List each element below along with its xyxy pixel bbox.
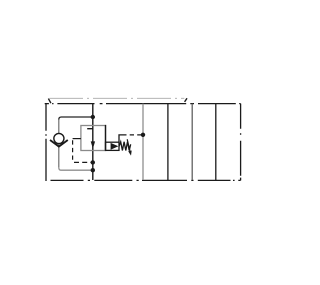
break tick left [48, 99, 51, 104]
pilot sense line (dashed, left of valve) [73, 138, 81, 140]
station divider line (gray) at x=143 [142, 104, 144, 180]
junction dot: pilot sense [91, 160, 95, 164]
junction dot: bypass bottom [91, 168, 95, 172]
station divider line (black) at x=215.8 [215, 104, 217, 180]
station divider line (black) at x=167.9 [167, 104, 169, 180]
check valve CV: seat [50, 140, 68, 147]
bypass wire left vertical [58, 120, 60, 168]
spring [119, 142, 131, 151]
enclosure right edge (dash-dot) [240, 104, 242, 181]
pilot relief valve poppet arrow (filled triangle) [111, 143, 119, 150]
station divider line (dark gray) at x=192.2 [191, 104, 193, 180]
pilot relief valve body [106, 142, 120, 150]
bypass wire bottom segment [59, 168, 93, 171]
junction dot: bypass top [91, 115, 95, 119]
check valve CV: ball [54, 133, 64, 143]
junction dot: pilot at divider [141, 133, 145, 137]
enclosure bottom edge (dash-dot) [51, 179, 241, 181]
broken upper boundary line (gray dash-dot) [50, 97, 185, 99]
enclosure top edge (dash-dot) [45, 103, 241, 105]
bypass wire top segment [59, 117, 93, 120]
break tick right [185, 98, 187, 102]
flow control valve body (gray box) [81, 126, 106, 151]
flow path stub inside valve [87, 128, 93, 130]
main flow line (vertical) [92, 104, 94, 180]
flow control valve right edge (black) [105, 125, 107, 151]
pilot line from relief valve to divider (up then dashed right) [119, 135, 127, 142]
spring adjustment arrow head [128, 151, 132, 156]
spring adjustment arrow shaft [127, 139, 130, 151]
enclosure left edge (dash-dot) [45, 104, 47, 181]
flow arrow (down) [91, 141, 95, 148]
